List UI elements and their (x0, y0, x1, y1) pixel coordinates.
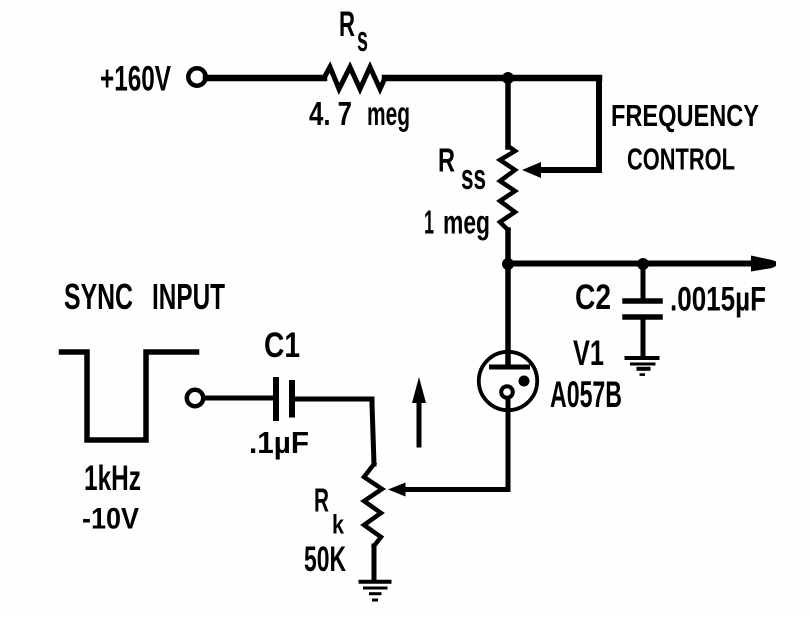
svg-text:k: k (332, 510, 345, 540)
svg-text:meg: meg (367, 95, 410, 132)
svg-text:INPUT: INPUT (152, 276, 225, 317)
svg-text:C2: C2 (575, 278, 611, 317)
svg-text:1kHz: 1kHz (84, 459, 141, 498)
svg-text:ss: ss (461, 156, 486, 197)
svg-text:C1: C1 (264, 326, 300, 365)
svg-text:FREQUENCY: FREQUENCY (611, 99, 759, 133)
svg-text:.1µF: .1µF (249, 425, 309, 460)
svg-text:+160V: +160V (100, 60, 171, 99)
svg-text:s: s (357, 18, 368, 59)
svg-text:meg: meg (443, 204, 490, 241)
svg-text:-10V: -10V (82, 503, 139, 536)
svg-text:1: 1 (424, 204, 434, 241)
svg-text:50K: 50K (304, 540, 346, 579)
svg-text:V1: V1 (573, 334, 604, 373)
svg-text:SYNC: SYNC (64, 276, 133, 317)
svg-text:R: R (314, 483, 329, 520)
svg-text:.0015µF: .0015µF (670, 281, 766, 319)
svg-text:CONTROL: CONTROL (627, 142, 735, 177)
svg-text:4. 7: 4. 7 (309, 95, 352, 132)
svg-text:R: R (339, 5, 355, 44)
svg-text:R: R (438, 143, 455, 180)
svg-text:A057B: A057B (550, 374, 622, 415)
